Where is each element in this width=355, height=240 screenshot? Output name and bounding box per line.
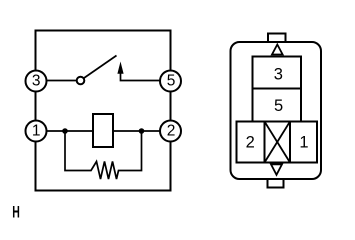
svg-text:2: 2	[167, 123, 176, 140]
svg-text:1: 1	[32, 123, 41, 140]
svg-text:1: 1	[299, 134, 308, 152]
svg-text:5: 5	[167, 72, 176, 89]
svg-text:H: H	[12, 202, 20, 221]
svg-text:3: 3	[274, 66, 283, 84]
svg-text:2: 2	[246, 134, 255, 152]
svg-text:3: 3	[32, 73, 41, 90]
svg-text:5: 5	[274, 97, 283, 115]
